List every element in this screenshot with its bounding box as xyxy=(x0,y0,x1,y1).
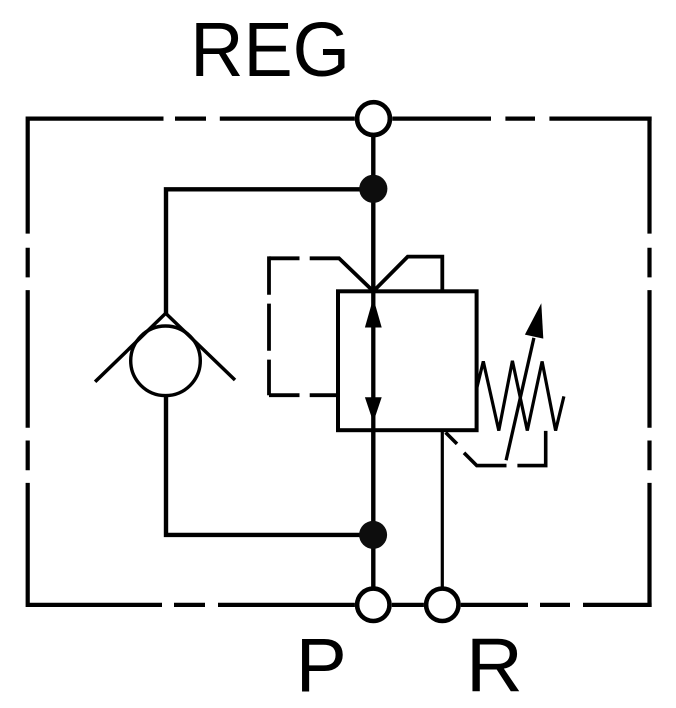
adjuster linkage dashed horizontal+vertical corner dash 3 xyxy=(517,431,545,466)
port R circle xyxy=(426,589,458,621)
wire: REG port down to valve (main vertical) xyxy=(371,135,375,292)
enclosure boundary bottom side (dash-dot) xyxy=(28,603,652,607)
vent line from valve top apex over to drain axis xyxy=(373,257,442,292)
adjustment arrowhead xyxy=(525,303,543,338)
pressure reducing valve body (box) xyxy=(338,291,477,430)
svg-text:P: P xyxy=(296,623,347,708)
port REG circle xyxy=(357,102,390,135)
junction dot lower (node P) xyxy=(359,521,387,549)
spring (adjustable) xyxy=(477,361,564,431)
svg-text:REG: REG xyxy=(190,7,350,93)
pilot line solid diagonal into valve top xyxy=(310,258,374,291)
enclosure boundary left side (dash-dot) xyxy=(26,117,30,608)
check valve CV1 seat (V) xyxy=(95,313,235,382)
adjuster linkage dashed diagonal+horizontal dash 2 xyxy=(464,453,507,466)
wire: check valve bottom to junction at P xyxy=(166,396,373,535)
pilot line dashed, left vertical segments xyxy=(267,256,271,395)
adjustment arrow shaft xyxy=(506,338,534,460)
valve flow arrowhead down xyxy=(365,397,382,422)
port P circle xyxy=(357,589,389,621)
check valve CV1 ball xyxy=(131,326,201,396)
enclosure boundary top side (dash-dot) xyxy=(28,116,652,120)
svg-text:R: R xyxy=(466,623,523,708)
wire: branch to check valve (top) xyxy=(166,189,373,314)
valve flow arrow shaft xyxy=(371,291,375,430)
pilot line dashed, bottom segments into valve left side xyxy=(269,393,338,397)
valve flow arrowhead up xyxy=(365,298,382,328)
pilot line dashed, top segment xyxy=(269,256,300,260)
wire: valve bottom down to port P xyxy=(371,430,375,587)
wire: valve drain down to port R xyxy=(441,430,444,587)
enclosure boundary right side (dash-dot) xyxy=(647,117,651,608)
adjuster linkage dashed diagonal dash 1 xyxy=(446,433,457,444)
junction dot upper (node REG/pilot) xyxy=(359,175,387,203)
